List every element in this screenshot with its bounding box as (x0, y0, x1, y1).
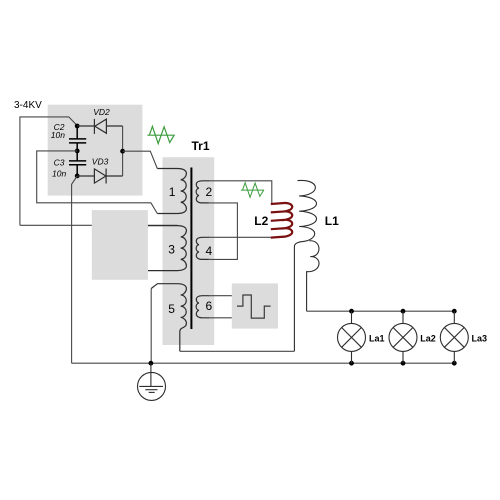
green waveform icon 1 (147, 126, 174, 143)
ground symbol (138, 363, 166, 400)
lamp La2 (389, 311, 417, 363)
svg-text:La3: La3 (472, 333, 488, 343)
wire: L2 bottom to winding 4 top (208, 236, 272, 238)
svg-text:VD3: VD3 (92, 157, 109, 167)
winding 1 (157, 169, 186, 214)
wire: HV input top (20, 117, 77, 225)
inductor L1 top section (294, 180, 316, 351)
diode VD2 (77, 119, 122, 134)
svg-text:L1: L1 (325, 214, 339, 228)
wire: to winding 3 top (20, 224, 178, 226)
node B junction (120, 149, 125, 154)
junction dots bottom rail (149, 361, 154, 366)
svg-text:VD2: VD2 (93, 107, 110, 117)
shaded block: hidden coupling box (92, 210, 148, 280)
svg-text:La1: La1 (369, 333, 385, 343)
winding 3 (148, 226, 186, 271)
inductor L2 (271, 203, 292, 238)
svg-text:L2: L2 (254, 214, 268, 228)
wire: winding 2 top to L2 top (208, 181, 272, 203)
svg-text:3: 3 (168, 242, 175, 256)
shaded block: pulse source box (232, 283, 278, 328)
wire: winding 6 top lead (208, 295, 240, 297)
node mid junction (75, 149, 80, 154)
junction dots top rail (349, 309, 354, 314)
wire: winding 5 left lead down to ground junction (150, 289, 152, 364)
svg-text:1: 1 (169, 185, 176, 199)
bottom rail wire (72, 362, 455, 364)
svg-text:10n: 10n (52, 169, 66, 179)
node A junction (75, 124, 80, 129)
wire: bridge right vertical (122, 126, 124, 176)
svg-text:2: 2 (206, 185, 213, 199)
wire: bottom node down to bottom rail (72, 176, 78, 363)
svg-text:5: 5 (168, 302, 175, 316)
wire: winding 2 bottom loop to winding 4 bottom (208, 203, 237, 260)
svg-text:3-4KV: 3-4KV (14, 100, 42, 111)
svg-text:C3: C3 (54, 158, 65, 168)
winding 2 (196, 181, 209, 203)
svg-text:4: 4 (206, 244, 213, 258)
capacitor C2 (69, 126, 86, 151)
capacitor C3 (69, 151, 86, 176)
inductor L1 bottom section (307, 241, 319, 311)
lamp La1 (338, 311, 366, 363)
lamp rail top wire (307, 310, 455, 312)
winding 4 (196, 237, 209, 259)
svg-text:Tr1: Tr1 (192, 139, 210, 153)
svg-text:10n: 10n (51, 130, 65, 140)
svg-text:6: 6 (206, 299, 213, 313)
node bottom junction (75, 174, 80, 179)
winding 6 (196, 296, 209, 318)
lamp La3 (440, 311, 468, 363)
shaded block: transformer Tr1 band (163, 157, 215, 345)
wire: mid node to winding 1 bottom (37, 151, 158, 214)
wire: node B to winding 1 top (123, 151, 158, 168)
transformer core (190, 168, 192, 330)
wire: winding 6 bottom lead (208, 317, 240, 319)
diode VD3 (77, 169, 122, 184)
shaded block: rectifier bridge area (48, 105, 143, 196)
square wave glyph (237, 295, 271, 318)
green waveform icon 2 (241, 183, 264, 198)
svg-text:La2: La2 (420, 333, 436, 343)
winding 5 (151, 284, 186, 352)
wire: winding5/L1 bottom link (180, 350, 295, 352)
